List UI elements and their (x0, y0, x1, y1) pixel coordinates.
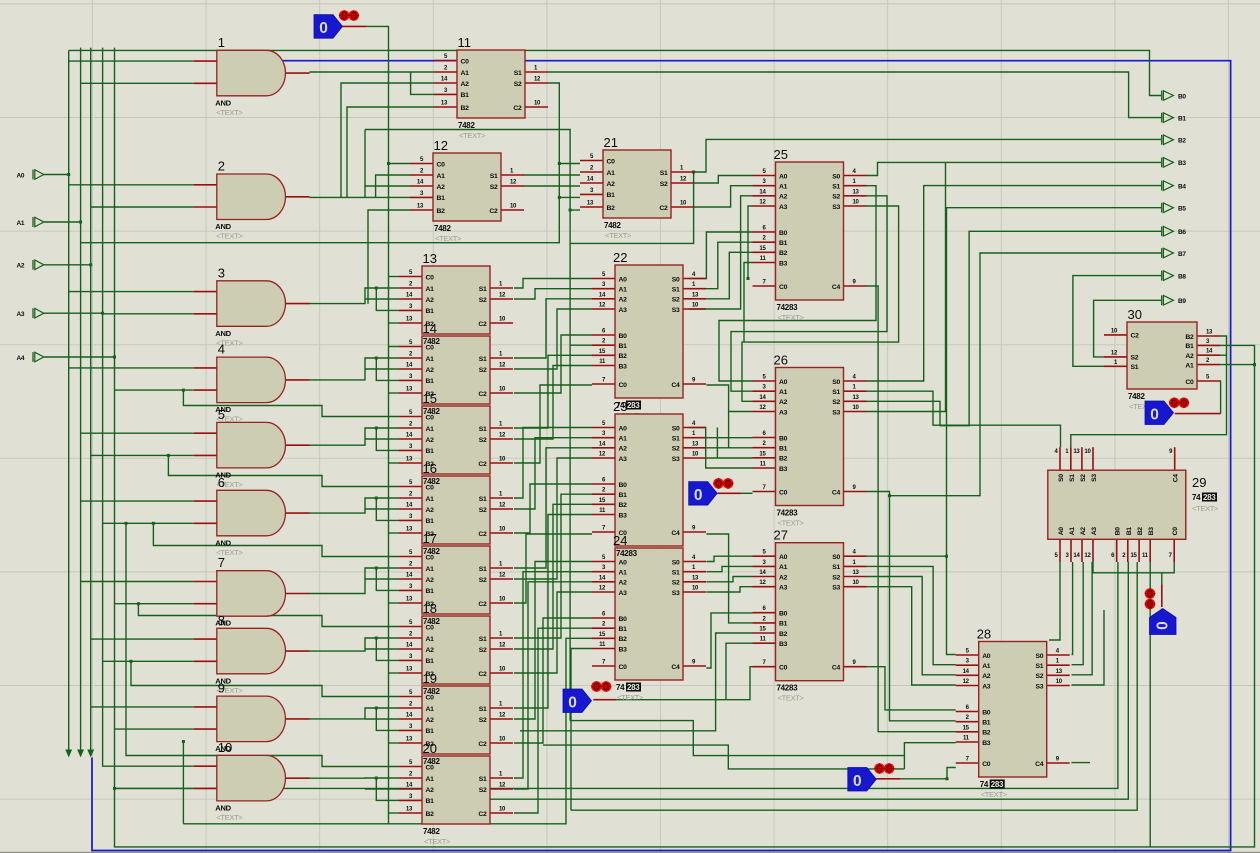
adder U20 (7482) (399, 741, 513, 846)
svg-text:10: 10 (499, 457, 506, 463)
wire gate1 input A lead (69, 60, 194, 62)
adder U30 (7482 mirrored) (1104, 307, 1220, 411)
svg-text:AND: AND (215, 538, 231, 547)
adder U14 (7482) (399, 321, 513, 404)
svg-text:S1: S1 (479, 566, 487, 573)
svg-text:15: 15 (599, 632, 606, 638)
svg-text:11: 11 (760, 256, 767, 262)
svg-text:19: 19 (423, 671, 437, 686)
wire U14.S1 to U22.A2 (514, 299, 592, 358)
svg-text:14: 14 (599, 575, 606, 581)
wire U28.S2 to U29.A3 (1072, 562, 1093, 675)
svg-text:B3: B3 (619, 512, 628, 519)
wire U17.C2 to U23.C0 (514, 534, 592, 603)
logic probe P5 (0) (1145, 401, 1174, 425)
svg-text:S1: S1 (479, 356, 487, 363)
wire U27.S3 to U28.A3 (867, 587, 956, 685)
wire trunk to U24.B2 (183, 638, 592, 824)
svg-text:13: 13 (853, 189, 860, 195)
wire tee U14.A2 (365, 368, 399, 370)
svg-text:A0: A0 (779, 379, 788, 386)
wire U26.C4 to U28.B1 (867, 492, 956, 721)
svg-text:C2: C2 (1131, 333, 1140, 340)
svg-text:12: 12 (534, 77, 541, 83)
svg-text:14: 14 (406, 503, 413, 509)
wire P2 lead red (717, 492, 741, 494)
svg-text:C0: C0 (779, 284, 788, 291)
svg-text:B0: B0 (619, 482, 628, 489)
svg-text:14: 14 (759, 570, 766, 576)
svg-text:14: 14 (759, 189, 766, 195)
junction U18.A1-B1 (375, 637, 378, 640)
svg-text:2: 2 (218, 159, 225, 174)
svg-text:<TEXT>: <TEXT> (778, 694, 805, 703)
svg-text:A2: A2 (17, 263, 25, 270)
wire U24.S1 to U27.A1 (706, 566, 752, 571)
svg-text:S2: S2 (672, 446, 680, 453)
wire branch gate3 to U12.B2 (368, 210, 410, 304)
svg-text:A0: A0 (619, 276, 628, 283)
svg-text:B2: B2 (779, 250, 788, 257)
svg-text:B1: B1 (982, 720, 991, 727)
wire U21.S1 branch net vertical (365, 130, 570, 721)
svg-text:14: 14 (599, 292, 606, 298)
svg-text:S3: S3 (672, 590, 680, 597)
svg-text:A2: A2 (426, 507, 435, 514)
svg-text:12: 12 (510, 180, 517, 186)
junction rail-C0-12 (387, 162, 390, 165)
svg-text:11: 11 (458, 35, 472, 50)
svg-text:A3: A3 (1091, 527, 1098, 536)
svg-text:A1: A1 (619, 436, 628, 443)
svg-text:14: 14 (759, 395, 766, 401)
wire U28.C4 lead (1071, 762, 1090, 764)
wire trunk to U24.B3 (571, 649, 592, 811)
svg-text:0: 0 (853, 773, 862, 790)
svg-text:A3: A3 (619, 456, 628, 463)
adder U16 (7482) (399, 461, 513, 544)
wire terminal A1 lead (44, 221, 81, 223)
svg-text:S2: S2 (514, 81, 522, 88)
svg-text:13: 13 (406, 527, 413, 533)
svg-text:A1: A1 (426, 636, 435, 643)
svg-text:24: 24 (613, 533, 627, 548)
svg-text:A2: A2 (619, 297, 628, 304)
wire U25.S0 to terminal B3 (867, 162, 1162, 175)
svg-text:10: 10 (499, 807, 506, 813)
junction trunk-busA4 (113, 787, 116, 790)
svg-text:A1: A1 (619, 570, 628, 577)
wire gate10 out to U20.A1 (310, 777, 400, 779)
wire gate4 out to U14.A1 (310, 358, 400, 380)
wire U25.B3 feed (744, 263, 753, 343)
svg-text:C0: C0 (437, 161, 446, 168)
svg-text:AND: AND (215, 98, 231, 107)
wire bus A0 vertical (68, 50, 70, 755)
svg-text:12: 12 (499, 433, 506, 439)
svg-text:A1: A1 (779, 389, 788, 396)
svg-text:A2: A2 (779, 194, 788, 201)
svg-text:A2: A2 (1185, 353, 1194, 360)
svg-text:13: 13 (406, 667, 413, 673)
svg-text:283: 283 (1203, 493, 1216, 502)
svg-text:A3: A3 (619, 590, 628, 597)
wire U16.C2 to U23.B0 (514, 484, 592, 533)
svg-text:S2: S2 (1080, 474, 1087, 482)
junction S1net-B2 (569, 209, 572, 212)
svg-text:10: 10 (510, 204, 517, 210)
wire tee U19.A2 (365, 718, 399, 720)
svg-text:B1: B1 (1185, 343, 1194, 350)
output terminal B2 (1162, 135, 1187, 145)
svg-text:B2: B2 (607, 205, 616, 212)
svg-text:A1: A1 (426, 566, 435, 573)
wire tee U13.C0 (389, 276, 400, 278)
svg-text:S1: S1 (490, 173, 498, 180)
svg-text:S2: S2 (479, 437, 487, 444)
svg-text:A1: A1 (426, 496, 435, 503)
svg-text:15: 15 (963, 725, 970, 731)
wire U23.C4 to U27.B1 (706, 534, 752, 623)
svg-text:11: 11 (599, 642, 606, 648)
svg-text:12: 12 (499, 783, 506, 789)
svg-text:A3: A3 (779, 409, 788, 416)
svg-text:<TEX: <TEX (1129, 402, 1147, 411)
svg-text:12: 12 (499, 643, 506, 649)
svg-text:10: 10 (499, 387, 506, 393)
wire U16.C0 feed (168, 455, 399, 486)
wire U24.S0 to U27.A0 (706, 556, 752, 561)
wire branch U27.S0 to U28.A0 (947, 556, 956, 654)
svg-text:74: 74 (1192, 493, 1201, 502)
wire branch gate2 to U12.A2 (365, 186, 410, 197)
svg-text:A0: A0 (779, 173, 788, 180)
svg-text:B2: B2 (461, 105, 470, 112)
wire U25.S3 to U26.A2 (742, 206, 899, 401)
svg-text:S3: S3 (832, 409, 840, 416)
wire U23.S2 to U26.B1 (706, 447, 752, 449)
junction C4-B7 tee (888, 494, 891, 497)
svg-text:C2: C2 (478, 671, 487, 678)
svg-text:C4: C4 (1173, 474, 1180, 483)
svg-text:S2: S2 (672, 580, 680, 587)
wire gate2 out to U12.B1 (310, 196, 411, 198)
svg-text:10: 10 (499, 737, 506, 743)
svg-text:7482: 7482 (1128, 392, 1145, 401)
svg-text:<TEXT>: <TEXT> (459, 131, 486, 140)
wire gate4 input B lead (115, 389, 194, 391)
wire branch U19.A1 to U19.B1 (376, 708, 399, 730)
junction U20.A1-B1 (375, 777, 378, 780)
svg-text:S1: S1 (479, 426, 487, 433)
svg-text:C2: C2 (513, 105, 522, 112)
svg-text:S1: S1 (672, 436, 680, 443)
svg-text:7482: 7482 (423, 407, 440, 416)
svg-text:13: 13 (853, 395, 860, 401)
wire tee U17.A2 (365, 578, 399, 580)
AND gate 4 (194, 342, 310, 424)
svg-text:S0: S0 (832, 173, 840, 180)
wire U19.C2 to U24.B0 (514, 618, 592, 743)
svg-text:7482: 7482 (423, 687, 440, 696)
svg-text:0: 0 (319, 20, 328, 37)
svg-text:B1: B1 (779, 240, 788, 247)
svg-text:S2: S2 (479, 717, 487, 724)
svg-text:B1: B1 (426, 658, 435, 665)
svg-text:B1: B1 (619, 343, 628, 350)
wire branch gate2 up to U11.B2 (347, 107, 434, 197)
svg-text:B0: B0 (1115, 527, 1122, 536)
svg-text:S1: S1 (672, 287, 680, 294)
logic probe P2 (0) (689, 482, 718, 506)
svg-text:13: 13 (1073, 449, 1080, 455)
svg-text:B2: B2 (619, 636, 628, 643)
svg-text:6: 6 (218, 475, 225, 490)
svg-text:A1: A1 (461, 70, 470, 77)
adder U12 (7482) (410, 138, 524, 243)
svg-text:B1: B1 (1178, 115, 1186, 122)
wire trunk left vertical (182, 742, 184, 824)
svg-text:B1: B1 (426, 518, 435, 525)
svg-text:15: 15 (759, 246, 766, 252)
wire branch U12.B1 to U12.A1 (376, 175, 410, 197)
svg-text:C2: C2 (478, 461, 487, 468)
wire U13.B2 tee (389, 322, 399, 324)
wire U30.A2 tee (1220, 354, 1227, 356)
wire gate6 input B lead (103, 522, 194, 524)
wire gate5 input A lead (81, 432, 194, 434)
wire tee U20.A2 (365, 788, 399, 790)
wire U20.S1 to U24.A1 (514, 572, 592, 778)
svg-text:S3: S3 (672, 456, 680, 463)
wire U25.C4 to U28.B2 (867, 286, 956, 732)
svg-text:13: 13 (406, 317, 413, 323)
svg-text:B3: B3 (1148, 527, 1155, 536)
svg-text:10: 10 (534, 101, 541, 107)
svg-text:AND: AND (215, 222, 231, 231)
svg-text:S2: S2 (1035, 673, 1043, 680)
svg-text:A1: A1 (779, 184, 788, 191)
wire U19.C0 feed (131, 661, 399, 696)
svg-text:A2: A2 (779, 574, 788, 581)
svg-text:B1: B1 (1126, 527, 1133, 536)
output terminal B6 (1162, 226, 1187, 236)
wire U30.S2 to terminal B9 (1094, 300, 1162, 357)
junction S2net-B1 (558, 196, 561, 199)
svg-text:A2: A2 (607, 181, 616, 188)
wire gate5 input B lead (91, 454, 194, 456)
svg-text:14: 14 (406, 713, 413, 719)
wire gate1 out to U11.A1 (310, 71, 435, 73)
svg-text:S1: S1 (479, 636, 487, 643)
svg-text:B2: B2 (619, 353, 628, 360)
svg-text:<TEXT>: <TEXT> (216, 108, 243, 117)
svg-text:14: 14 (417, 180, 424, 186)
wire U27.S2 to U28.A2 (867, 577, 956, 675)
svg-text:C0: C0 (1172, 527, 1179, 536)
junction A0-bus (67, 173, 70, 176)
svg-text:A2: A2 (619, 446, 628, 453)
svg-text:S1: S1 (832, 184, 840, 191)
svg-text:74283: 74283 (616, 549, 638, 558)
svg-text:B2: B2 (1137, 527, 1144, 536)
svg-text:A1: A1 (982, 663, 991, 670)
svg-text:A3: A3 (779, 585, 788, 592)
svg-text:10: 10 (1111, 328, 1118, 334)
svg-text:C0: C0 (426, 274, 435, 281)
svg-text:C2: C2 (478, 601, 487, 608)
svg-text:12: 12 (1084, 553, 1091, 559)
svg-text:S0: S0 (832, 379, 840, 386)
svg-text:12: 12 (759, 580, 766, 586)
svg-text:15: 15 (599, 498, 606, 504)
logic probe P1 (0) (314, 15, 343, 39)
svg-text:28: 28 (977, 627, 991, 642)
svg-text:S0: S0 (672, 559, 680, 566)
svg-text:B2: B2 (1185, 334, 1194, 341)
svg-text:C0: C0 (607, 158, 616, 165)
svg-text:B2: B2 (779, 456, 788, 463)
AND gate 8 (194, 613, 310, 695)
svg-text:14: 14 (599, 441, 606, 447)
svg-text:16: 16 (423, 461, 437, 476)
svg-text:C0: C0 (779, 489, 788, 496)
wire U18.B2 tee (389, 672, 399, 674)
svg-text:S1: S1 (1035, 663, 1043, 670)
wire U28.B3 vertical join (903, 756, 905, 769)
svg-text:B2: B2 (426, 811, 435, 818)
svg-text:B2: B2 (619, 502, 628, 509)
svg-text:13: 13 (853, 570, 860, 576)
wire U28.S0 to U29.A1 (1072, 562, 1073, 655)
wire branch U20.A1 to U20.B1 (376, 778, 399, 800)
svg-text:B6: B6 (1178, 229, 1186, 236)
junction A2-bus (89, 263, 92, 266)
wire U29.S1 to U30.B2 (1071, 336, 1227, 447)
wire P6 lead red (1161, 584, 1163, 607)
svg-text:S1: S1 (479, 286, 487, 293)
svg-text:10: 10 (853, 200, 860, 206)
svg-text:12: 12 (963, 679, 970, 685)
AND gate 2 (194, 159, 310, 241)
svg-text:10: 10 (853, 405, 860, 411)
AND gate 9 (194, 681, 310, 763)
wire U20.B2 tee (389, 812, 399, 814)
wire gate7 out to U17.A1 (310, 568, 400, 594)
svg-text:13: 13 (587, 201, 594, 207)
junction S1-branch (692, 171, 695, 174)
svg-text:74283: 74283 (777, 303, 799, 312)
logic probe P6 (0, rotated) (1150, 609, 1177, 635)
svg-text:S2: S2 (479, 577, 487, 584)
svg-text:AND: AND (215, 329, 231, 338)
wire gate6 out to U16.A1 (310, 498, 400, 513)
svg-text:B4: B4 (1178, 183, 1186, 190)
svg-text:283: 283 (991, 780, 1004, 789)
AND gate 10 (194, 740, 310, 822)
svg-text:A2: A2 (1080, 527, 1087, 536)
wire U15.S2 to U22.B3 (514, 366, 592, 440)
wire U24.S2 to U27.A2 (706, 577, 752, 582)
wire gate2 input A lead (69, 184, 194, 186)
svg-text:<TEXT>: <TEXT> (605, 231, 632, 240)
svg-text:S2: S2 (479, 647, 487, 654)
wire U27.C4 to U28.B0 (867, 667, 956, 710)
svg-text:12: 12 (599, 303, 606, 309)
svg-text:20: 20 (423, 741, 437, 756)
svg-text:B2: B2 (982, 730, 991, 737)
svg-text:10: 10 (680, 201, 687, 207)
svg-text:B0: B0 (779, 435, 788, 442)
svg-text:B1: B1 (426, 448, 435, 455)
svg-text:S3: S3 (832, 204, 840, 211)
svg-text:11: 11 (760, 462, 767, 468)
svg-text:S1: S1 (514, 70, 522, 77)
svg-text:A1: A1 (1069, 527, 1076, 536)
svg-text:B3: B3 (1178, 160, 1186, 167)
svg-text:A4: A4 (17, 355, 25, 362)
junction trunk-c0feed (182, 740, 185, 743)
svg-text:10: 10 (499, 667, 506, 673)
wire U26.S0 to terminal B4 (867, 186, 1162, 381)
output terminal B3 (1162, 158, 1187, 168)
svg-text:A2: A2 (437, 184, 446, 191)
svg-text:<TEXT>: <TEXT> (216, 813, 243, 822)
svg-text:14: 14 (406, 643, 413, 649)
wire U27.B2 feed (520, 633, 753, 731)
svg-text:C0: C0 (779, 665, 788, 672)
origin markers P3 (591, 681, 611, 692)
output terminal B7 (1162, 248, 1187, 258)
svg-text:74: 74 (980, 780, 989, 789)
svg-text:<TEXT>: <TEXT> (778, 313, 805, 322)
wire tee U21.B2 (570, 209, 580, 211)
wire U29.C0 net (1093, 562, 1174, 573)
wire terminal A3 lead (44, 312, 103, 314)
svg-text:<TEXT>: <TEXT> (778, 519, 805, 528)
wire trunk join to B3 vertical (543, 745, 904, 769)
svg-text:12: 12 (499, 293, 506, 299)
wire U17.B2 tee (389, 602, 399, 604)
svg-text:A1: A1 (619, 287, 628, 294)
wire U22.S1 to U25.B1 (689, 242, 753, 289)
svg-text:B3: B3 (779, 260, 788, 267)
svg-text:11: 11 (760, 637, 767, 643)
svg-text:C0: C0 (619, 664, 628, 671)
junction A1-bus (79, 221, 82, 224)
wire bus A1 vertical (80, 48, 82, 756)
svg-text:13: 13 (441, 101, 448, 107)
svg-text:C2: C2 (478, 321, 487, 328)
svg-text:S2: S2 (832, 194, 840, 201)
wire U13.S2 to U22.A1 (514, 289, 592, 299)
svg-text:12: 12 (499, 363, 506, 369)
svg-text:B1: B1 (607, 192, 616, 199)
svg-text:S2: S2 (660, 181, 668, 188)
wire U27.B3 feed (726, 643, 753, 700)
svg-text:14: 14 (406, 293, 413, 299)
wire U14.B2 tee (389, 392, 399, 394)
svg-text:4: 4 (218, 342, 225, 357)
wire U20.C0 feed (126, 523, 399, 766)
svg-text:10: 10 (499, 597, 506, 603)
svg-text:A1: A1 (426, 286, 435, 293)
adder U27 (74283) (753, 528, 867, 703)
wire U16.S2 to U23.A1 (514, 438, 592, 509)
svg-text:B1: B1 (619, 626, 628, 633)
wire tee U16.A2 (365, 508, 399, 510)
bus arrowhead 2 (87, 750, 94, 758)
